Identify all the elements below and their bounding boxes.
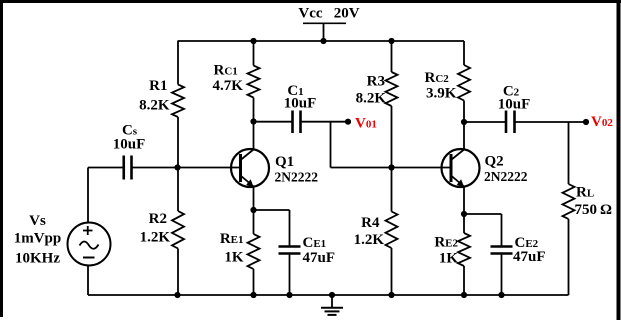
node ground junction (329, 292, 335, 298)
source Vs sine wave (80, 242, 99, 249)
ground (331, 295, 333, 308)
transistor Q2 emitter arrow (457, 179, 465, 187)
svg-text:RL: RL (576, 185, 594, 201)
wire Vs bottom lead (87, 266, 89, 296)
wire RE2 bottom lead (463, 266, 465, 295)
wire RC1 bottom lead (253, 98, 255, 122)
svg-text:Vcc 20V: Vcc 20V (298, 6, 359, 22)
svg-text:Q2: Q2 (485, 154, 504, 170)
svg-text:2N2222: 2N2222 (484, 169, 528, 184)
wire Cs to base node (132, 167, 178, 169)
wire R1 bottom lead (177, 117, 179, 168)
svg-text:10KHz: 10KHz (15, 251, 60, 267)
svg-text:R2: R2 (149, 211, 167, 227)
wire Q1 emitter lead (253, 187, 255, 211)
Vcc supply bar (303, 22, 346, 24)
wire RC2 top lead (463, 41, 465, 65)
node V01 terminal (345, 119, 351, 125)
wire R3 bottom lead (391, 106, 393, 168)
wire Vcc to top rail (323, 23, 325, 41)
node Q1 base junction (174, 164, 180, 170)
svg-text:47uF: 47uF (303, 250, 336, 266)
node Q2 emitter junction (461, 211, 467, 217)
resistor RC2 (458, 65, 470, 101)
svg-text:RC1: RC1 (214, 62, 238, 78)
border frame left (0, 0, 3, 317)
wire Vs top lead (87, 168, 89, 223)
svg-text:10uF: 10uF (284, 96, 317, 112)
node RC1 top junction (250, 38, 256, 44)
svg-text:R1: R1 (149, 78, 167, 94)
capacitor CE2 plates (491, 245, 513, 248)
wire collector node to C1 (254, 121, 293, 123)
node R4 bottom (388, 292, 394, 298)
svg-text:V01: V01 (355, 116, 377, 132)
transistor Q2 circle (442, 149, 480, 187)
svg-text:RE1: RE1 (220, 231, 244, 247)
svg-text:10uF: 10uF (498, 97, 531, 113)
transistor Q2 base bar (450, 154, 453, 182)
wire CE1 bottom lead (289, 254, 291, 296)
node CE1 bottom (286, 292, 292, 298)
source Vs plus sign (83, 230, 93, 232)
node Q2 collector junction (461, 119, 467, 125)
svg-text:4.7K: 4.7K (213, 78, 244, 94)
node Q2 base junction (388, 164, 394, 170)
wire RL bottom lead (568, 219, 570, 295)
wire collector Q2 (463, 122, 465, 150)
resistor RL (563, 184, 575, 219)
wire emitter2 to CE2 (464, 213, 502, 215)
wire bottom rail (88, 294, 569, 296)
wire CE2 top lead (501, 214, 503, 247)
node V02 terminal (583, 119, 589, 125)
svg-text:R3: R3 (367, 74, 385, 90)
node CE2 bottom (498, 292, 504, 298)
svg-text:1K: 1K (439, 251, 459, 267)
transistor Q2 collector stroke (451, 150, 464, 161)
svg-text:2N2222: 2N2222 (275, 170, 319, 185)
svg-text:RE2: RE2 (434, 235, 458, 251)
svg-text:1mVpp: 1mVpp (14, 231, 62, 247)
resistor R3 (386, 72, 398, 106)
wire CE1 top lead (289, 210, 291, 247)
wire Vs to Cs (88, 167, 124, 169)
svg-text:8.2K: 8.2K (356, 91, 387, 107)
wire C2 to V02 (515, 121, 587, 123)
transistor Q1 collector stroke (241, 150, 254, 161)
resistor R2 (172, 211, 184, 249)
wire R1 top lead (177, 41, 179, 85)
node Q1 collector junction (250, 118, 256, 124)
transistor Q1 circle (231, 149, 269, 187)
wire R2 bottom lead (177, 249, 179, 296)
wire C1 down jog (330, 122, 332, 168)
capacitor C1 plates (291, 111, 294, 134)
wire to Q2 base (331, 167, 450, 169)
svg-text:RC2: RC2 (425, 70, 450, 86)
wire RE1 bottom lead (253, 269, 255, 295)
svg-text:V02: V02 (591, 114, 613, 130)
wire R4 top lead (391, 168, 393, 212)
node Vcc junction (320, 38, 326, 44)
transistor Q2 emitter stroke (451, 176, 464, 187)
node R3 top junction (388, 38, 394, 44)
svg-text:R4: R4 (361, 215, 380, 231)
capacitor Cs plates (122, 156, 125, 180)
svg-text:1.2K: 1.2K (354, 232, 385, 248)
transistor Q1 emitter arrow (246, 179, 254, 187)
wire emitter to CE1 (254, 209, 290, 211)
transistor Q1 emitter stroke (241, 176, 254, 187)
wire RC1 top lead (253, 41, 255, 66)
wire C1 to V01 (301, 121, 349, 123)
resistor RC1 (248, 66, 260, 98)
wire R3 top lead (391, 41, 393, 72)
resistor R4 (386, 212, 398, 249)
svg-text:Vs: Vs (29, 213, 46, 229)
svg-text:1.2K: 1.2K (140, 230, 171, 246)
wire RC2 bottom lead (463, 101, 465, 123)
source Vs minus sign (83, 257, 95, 259)
wire RL top lead (568, 122, 570, 184)
resistor RE2 (458, 233, 470, 266)
wire CE2 bottom lead (501, 254, 503, 296)
wire Q1 base (178, 167, 240, 169)
svg-text:Q1: Q1 (275, 154, 294, 170)
svg-text:8.2K: 8.2K (139, 98, 170, 114)
border frame top (0, 0, 621, 3)
node RE1 bottom (250, 292, 256, 298)
resistor R1 (172, 85, 184, 118)
wire collector Q1 (253, 122, 255, 150)
transistor Q1 base bar (239, 154, 242, 182)
node RE2 bottom (461, 292, 467, 298)
wire collector2 to C2 (464, 121, 506, 123)
source Vs circle (68, 223, 111, 266)
resistor RE1 (248, 234, 260, 269)
wire RE1 top lead (253, 210, 255, 234)
wire Q2 emitter lead (463, 187, 465, 215)
svg-text:CE1: CE1 (303, 235, 327, 251)
wire R4 bottom lead (391, 248, 393, 295)
node R2 bottom (174, 292, 180, 298)
wire RE2 top lead (463, 214, 465, 233)
svg-text:47uF: 47uF (513, 249, 546, 265)
svg-text:3.9K: 3.9K (426, 86, 457, 102)
svg-text:10uF: 10uF (113, 137, 146, 153)
svg-text:1K: 1K (224, 250, 244, 266)
node Q1 emitter junction (250, 207, 256, 213)
capacitor C2 plates (505, 111, 508, 134)
wire R2 top lead (177, 168, 179, 212)
svg-text:750Ω: 750Ω (575, 202, 613, 218)
capacitor CE1 plates (279, 245, 301, 248)
wire top rail (178, 40, 465, 42)
border frame right (617, 0, 621, 320)
